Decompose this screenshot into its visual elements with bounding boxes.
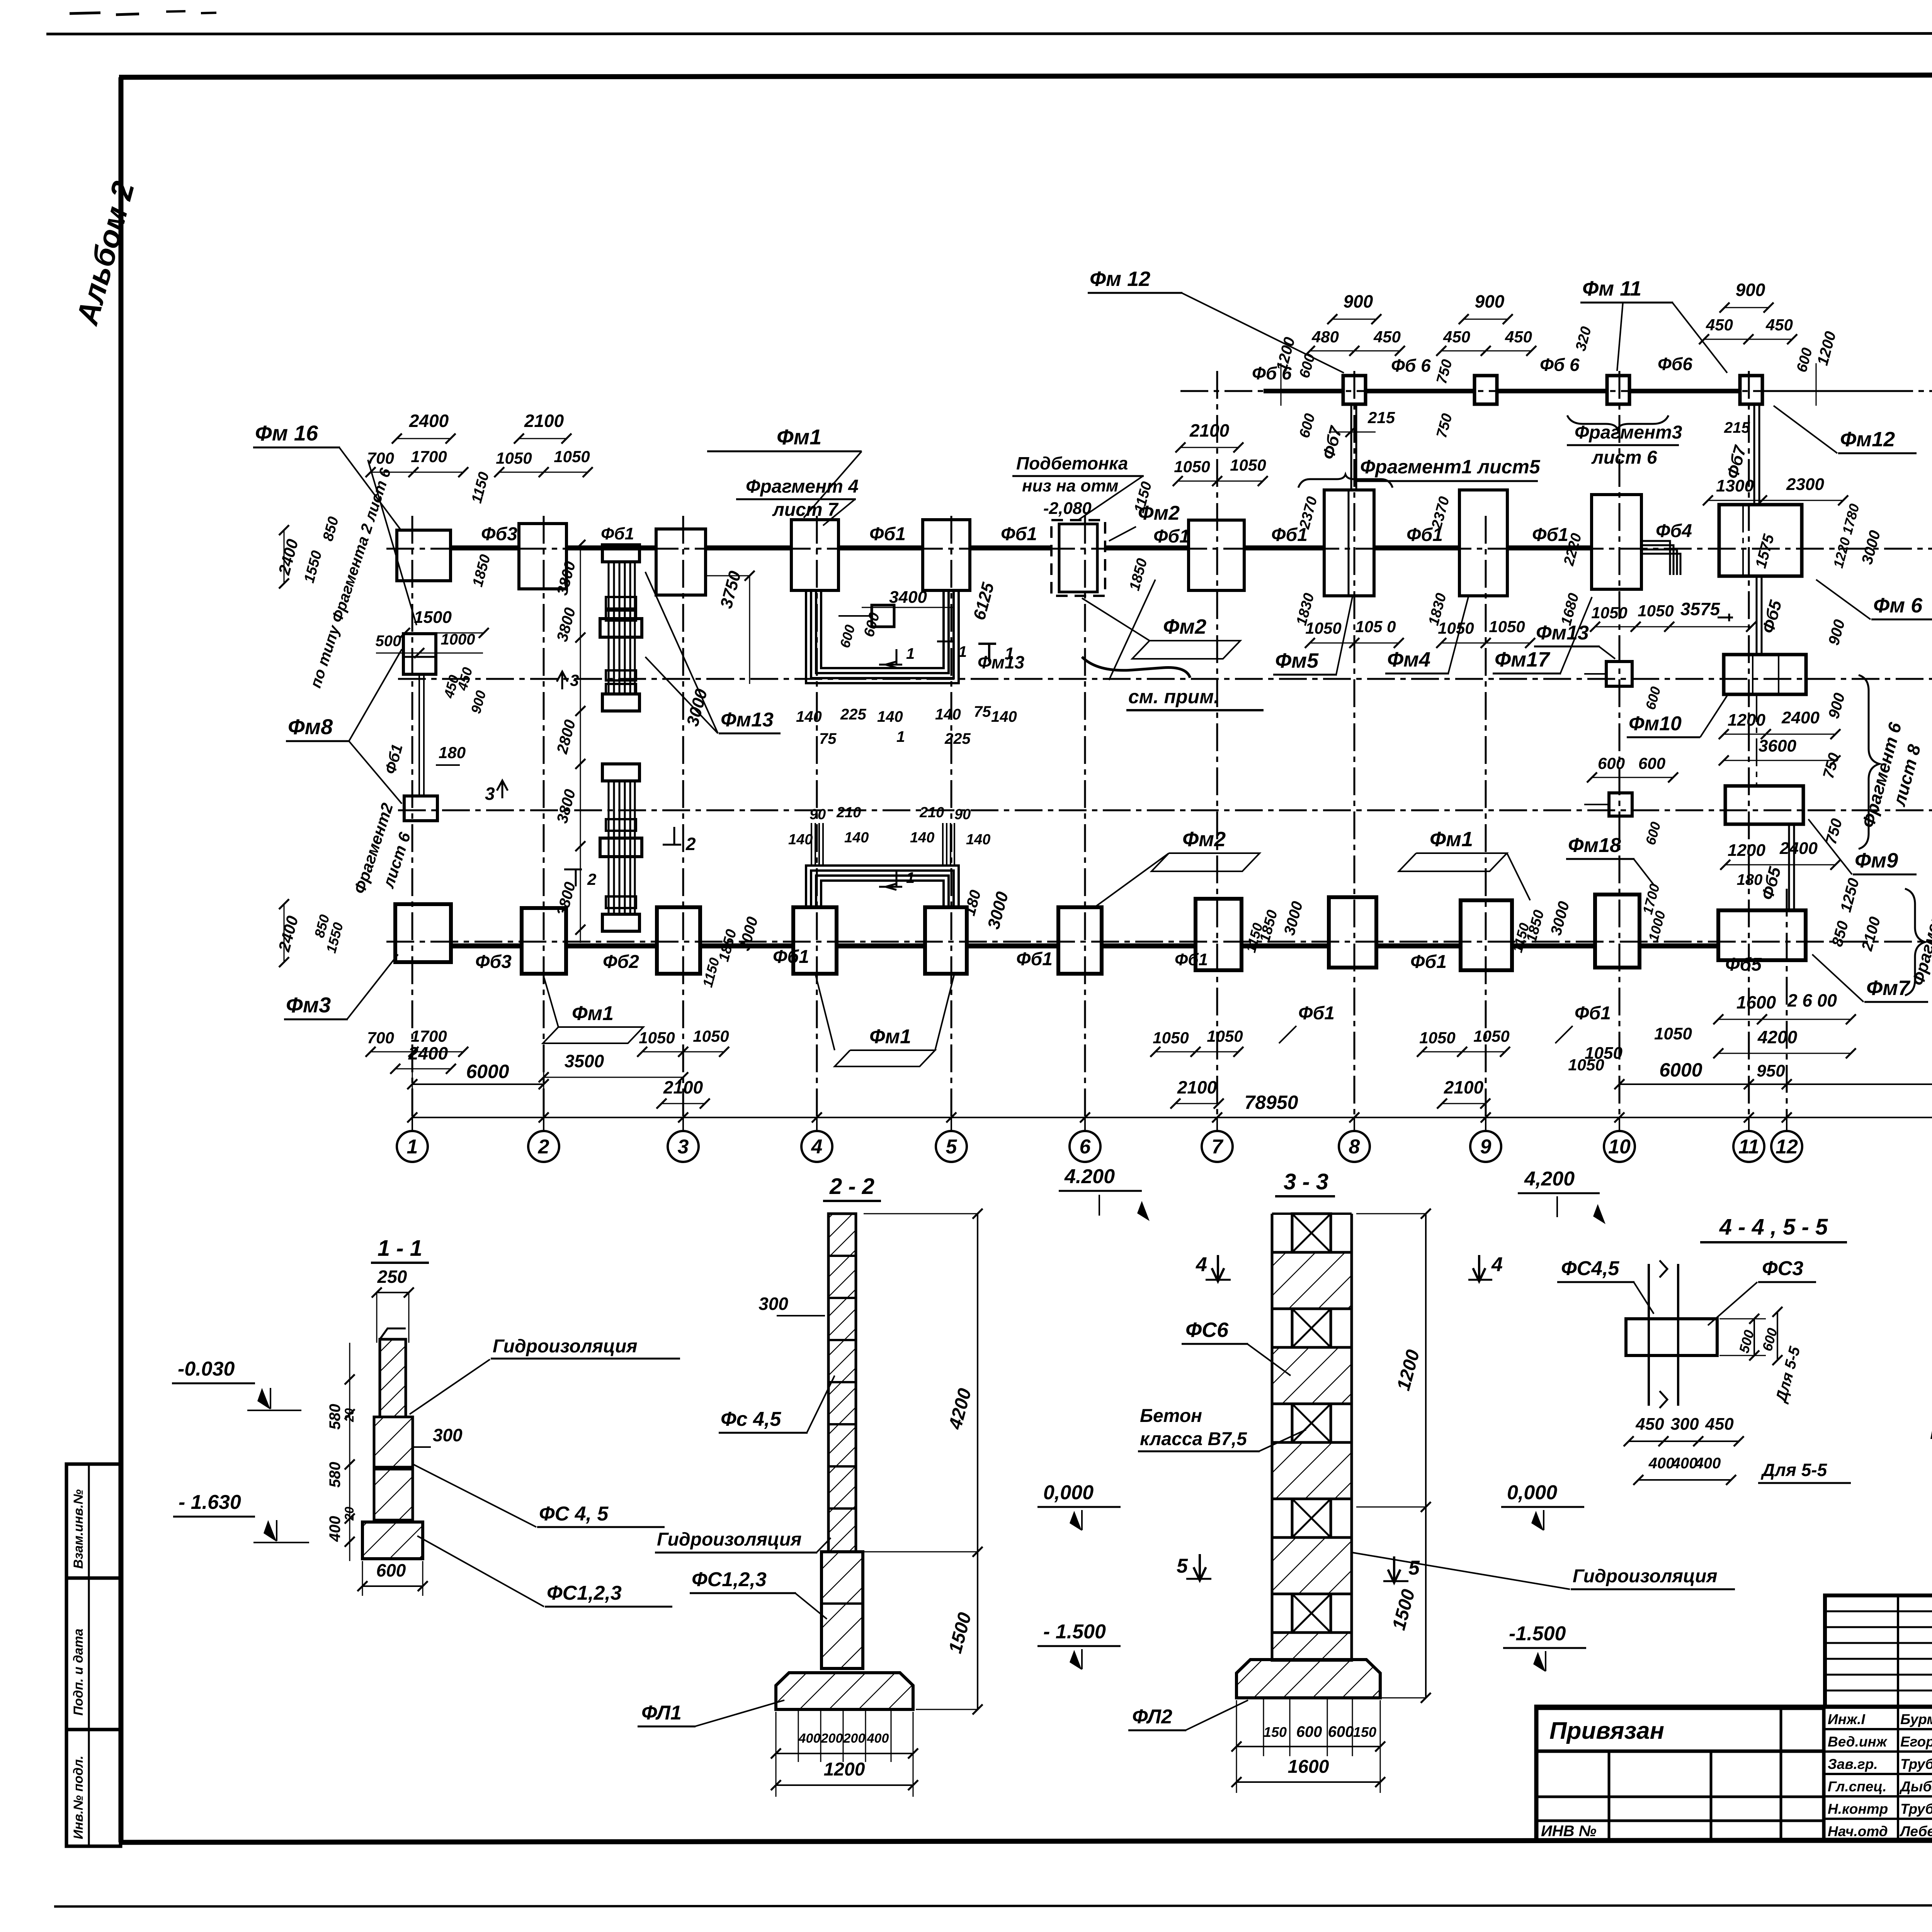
foundation col7 bottom bbox=[1196, 899, 1242, 970]
svg-text:Инж.I: Инж.I bbox=[1828, 1711, 1865, 1727]
fragment 5 list 7 brace bbox=[1905, 889, 1925, 995]
svg-text:1050: 1050 bbox=[1153, 1029, 1189, 1047]
axis circle 5 bbox=[936, 1131, 967, 1162]
vertical beam FB7 col8 bbox=[1350, 406, 1352, 490]
svg-text:450: 450 bbox=[1443, 328, 1470, 346]
beam FB5 between col10-11 A bbox=[1639, 944, 1718, 949]
svg-text:2100: 2100 bbox=[1177, 1077, 1217, 1097]
svg-text:Фб5: Фб5 bbox=[1725, 954, 1762, 975]
svg-text:4: 4 bbox=[811, 1136, 823, 1158]
squares Fm13 right bbox=[1606, 662, 1632, 686]
section 3-3 column bbox=[1292, 1214, 1331, 1252]
beam FB1 between col5-6 G bbox=[970, 546, 1051, 551]
svg-text:140: 140 bbox=[788, 832, 813, 848]
section 4-4 vertical wall lines bbox=[1648, 1264, 1650, 1406]
svg-text:- 1.500: - 1.500 bbox=[1043, 1621, 1106, 1643]
svg-text:Фб4: Фб4 bbox=[1656, 521, 1692, 541]
beam FB1 between col7-8 A bbox=[1242, 944, 1329, 949]
svg-text:Фм1: Фм1 bbox=[777, 425, 821, 449]
ladder element Fm13 upper col3 bbox=[602, 545, 639, 562]
svg-text:300: 300 bbox=[1670, 1415, 1699, 1434]
beam FB1 between col8-9 G bbox=[1374, 546, 1459, 551]
vertical beam FB7 col11 bbox=[1753, 406, 1755, 505]
beam FB1 between col7-8 G bbox=[1244, 546, 1324, 551]
svg-text:140: 140 bbox=[910, 830, 934, 846]
foundation col7 top bbox=[1189, 520, 1244, 590]
beam FB1 between col2-3 G bbox=[566, 546, 656, 551]
svg-text:215: 215 bbox=[1724, 419, 1750, 436]
svg-text:Для 5-5: Для 5-5 bbox=[1760, 1460, 1828, 1480]
section 2-2 dim 1200 bbox=[776, 1712, 777, 1797]
svg-text:Фм8: Фм8 bbox=[288, 714, 333, 739]
svg-text:Фб6: Фб6 bbox=[1658, 354, 1692, 374]
section 1-1 left dims 580 20 580 20 400 bbox=[349, 1343, 350, 1561]
axis circle 11 bbox=[1733, 1131, 1764, 1162]
svg-text:Фм12: Фм12 bbox=[1840, 428, 1895, 451]
beam FB1 between col4-5 A bbox=[837, 944, 925, 949]
bottom total dim line 78950 bbox=[412, 1117, 1932, 1118]
svg-text:1700: 1700 bbox=[411, 1027, 447, 1045]
svg-text:150: 150 bbox=[1353, 1724, 1376, 1740]
svg-text:Фрагмент1 лист5: Фрагмент1 лист5 bbox=[1360, 456, 1541, 478]
svg-text:Фб1: Фб1 bbox=[1016, 949, 1053, 969]
pit lower bracket bbox=[806, 866, 959, 908]
svg-text:105 0: 105 0 bbox=[1355, 617, 1396, 636]
svg-text:Фм4: Фм4 bbox=[1387, 648, 1430, 671]
foundation Fm1 col9 bottom bbox=[1461, 900, 1512, 970]
Fm8 lower small block bbox=[404, 796, 437, 821]
svg-text:2100: 2100 bbox=[663, 1077, 703, 1097]
svg-text:900: 900 bbox=[1736, 280, 1765, 300]
svg-text:200: 200 bbox=[843, 1731, 866, 1746]
beam FB1 between col9-10 A bbox=[1512, 944, 1595, 949]
svg-text:Подп. и дата: Подп. и дата bbox=[71, 1629, 86, 1716]
beam FB1 between col5-6 A bbox=[967, 944, 1058, 949]
axis line B bbox=[398, 810, 1932, 811]
svg-text:Фм1: Фм1 bbox=[572, 1002, 614, 1025]
scan artifacts top-left bbox=[70, 13, 100, 14]
svg-text:2 - 2: 2 - 2 bbox=[829, 1174, 874, 1199]
svg-text:900: 900 bbox=[1475, 291, 1505, 311]
pit loop Fm13 upper bbox=[806, 590, 959, 683]
foundation Fm16 col1 bbox=[397, 530, 451, 581]
foundation Fm1 col4 bbox=[791, 520, 838, 590]
svg-text:1200: 1200 bbox=[1728, 841, 1765, 860]
svg-text:1050: 1050 bbox=[1489, 617, 1525, 636]
section mark T1 bbox=[978, 644, 996, 662]
square col9 row E bbox=[1475, 376, 1497, 404]
svg-text:Подбетонка: Подбетонка bbox=[1016, 453, 1128, 473]
svg-text:450: 450 bbox=[1373, 328, 1401, 346]
svg-text:1050: 1050 bbox=[1174, 457, 1210, 476]
svg-text:2: 2 bbox=[587, 870, 596, 888]
svg-text:1050: 1050 bbox=[1230, 456, 1266, 474]
foundation col8 bottom bbox=[1329, 897, 1376, 968]
svg-text:под фундамент камеры тепловой: под фундамент камеры тепловой обработки bbox=[1930, 1420, 1932, 1444]
svg-text:Бурмистрова: Бурмистрова bbox=[1900, 1711, 1932, 1727]
svg-text:Фб1: Фб1 bbox=[601, 524, 634, 543]
svg-text:150: 150 bbox=[1264, 1724, 1287, 1740]
scan top edge line bbox=[46, 33, 1932, 34]
svg-text:90: 90 bbox=[810, 806, 826, 823]
svg-text:4.200: 4.200 bbox=[1064, 1165, 1115, 1188]
svg-text:3: 3 bbox=[485, 784, 495, 804]
svg-text:600: 600 bbox=[376, 1560, 406, 1580]
svg-text:400: 400 bbox=[798, 1731, 821, 1746]
beam FB1 between col3-4 A bbox=[700, 944, 793, 949]
svg-text:140: 140 bbox=[877, 708, 903, 725]
svg-text:450: 450 bbox=[1705, 1415, 1734, 1434]
svg-text:600: 600 bbox=[1638, 754, 1665, 772]
svg-text:Вед.инж: Вед.инж bbox=[1828, 1734, 1888, 1750]
section mark 1-1 inside pit bbox=[879, 649, 902, 668]
foundation Fm6 col11 big bbox=[1719, 505, 1802, 576]
svg-text:Фм 11: Фм 11 bbox=[1582, 277, 1641, 300]
svg-text:Гл.спец.: Гл.спец. bbox=[1828, 1779, 1887, 1794]
beam FB1 between col6-7 G bbox=[1105, 546, 1189, 551]
svg-text:1050: 1050 bbox=[1591, 604, 1627, 622]
axis line E bbox=[1180, 390, 1932, 392]
svg-text:300: 300 bbox=[433, 1425, 463, 1445]
svg-text:ФС3: ФС3 bbox=[1762, 1257, 1803, 1280]
svg-text:2: 2 bbox=[685, 834, 696, 854]
svg-text:класса В7,5: класса В7,5 bbox=[1140, 1429, 1247, 1449]
svg-text:лист 7: лист 7 bbox=[772, 500, 839, 520]
section 3-3 footing FL2 bbox=[1236, 1660, 1380, 1698]
svg-text:1050: 1050 bbox=[1207, 1027, 1243, 1045]
column axis lines bbox=[412, 516, 413, 1117]
pit inner square 600x600 bbox=[872, 605, 894, 627]
foundation col2 top bbox=[519, 524, 566, 589]
svg-text:3: 3 bbox=[678, 1136, 689, 1158]
foundation Fm3 col1 bbox=[395, 904, 451, 962]
svg-text:низ на отм: низ на отм bbox=[1022, 476, 1118, 495]
svg-text:Фм3: Фм3 bbox=[286, 993, 331, 1017]
bottom dim 6000 cols 1-2 bbox=[412, 1083, 544, 1085]
svg-text:ФЛ2: ФЛ2 bbox=[1132, 1706, 1172, 1728]
svg-text:Фм7: Фм7 bbox=[1866, 976, 1911, 1000]
svg-text:Нач.отд: Нач.отд bbox=[1828, 1823, 1888, 1839]
svg-text:Привязан: Привязан bbox=[1549, 1718, 1664, 1744]
beam FB6 segments row E bbox=[1264, 389, 1343, 393]
foundation Fm7 col11 bbox=[1718, 910, 1806, 960]
svg-text:Фм17: Фм17 bbox=[1495, 648, 1551, 671]
svg-text:1050: 1050 bbox=[1568, 1056, 1604, 1074]
ladder lower extra rungs bbox=[606, 819, 636, 831]
svg-text:Фм1: Фм1 bbox=[1430, 828, 1473, 851]
svg-text:600: 600 bbox=[1598, 754, 1625, 772]
svg-text:500: 500 bbox=[376, 633, 401, 650]
svg-text:ФЛ1: ФЛ1 bbox=[641, 1702, 682, 1724]
svg-text:180: 180 bbox=[1737, 871, 1763, 888]
foundation Fm17 col10 bbox=[1592, 495, 1641, 589]
signature rows bbox=[1825, 1728, 1932, 1730]
svg-text:1: 1 bbox=[896, 728, 905, 745]
svg-text:Гидроизоляция: Гидроизоляция bbox=[657, 1529, 801, 1550]
axis circle 12 bbox=[1771, 1131, 1802, 1162]
svg-text:3400: 3400 bbox=[889, 588, 927, 607]
svg-text:- 1.630: - 1.630 bbox=[179, 1491, 241, 1514]
svg-text:Фм2: Фм2 bbox=[1182, 828, 1226, 851]
svg-text:Фс 4,5: Фс 4,5 bbox=[721, 1408, 781, 1430]
svg-text:4200: 4200 bbox=[1757, 1027, 1798, 1047]
svg-text:2100: 2100 bbox=[1444, 1077, 1484, 1097]
section 3-3 bottom dims bbox=[1263, 1698, 1264, 1756]
svg-text:Фб1: Фб1 bbox=[1175, 950, 1208, 969]
svg-text:Фб1: Фб1 bbox=[1298, 1003, 1335, 1024]
svg-text:9: 9 bbox=[1480, 1136, 1492, 1158]
svg-text:20: 20 bbox=[342, 1408, 356, 1422]
axis circle 4 bbox=[801, 1131, 832, 1162]
svg-text:1500: 1500 bbox=[414, 608, 452, 627]
svg-text:Фб1: Фб1 bbox=[869, 524, 906, 544]
svg-text:Трубникова: Трубникова bbox=[1900, 1756, 1932, 1772]
svg-text:2 6 00: 2 6 00 bbox=[1787, 990, 1837, 1010]
svg-text:8: 8 bbox=[1349, 1136, 1360, 1158]
svg-text:6000: 6000 bbox=[1659, 1059, 1702, 1081]
svg-text:Фб1: Фб1 bbox=[773, 947, 809, 967]
left stamp boxes bbox=[66, 1464, 121, 1846]
svg-text:450: 450 bbox=[1505, 328, 1532, 346]
foundation Fm1 col4 bottom bbox=[793, 907, 837, 974]
beam FB1 between col6-7 A bbox=[1102, 944, 1196, 949]
svg-text:Фб 6: Фб 6 bbox=[1540, 355, 1580, 375]
foundation col3 bottom bbox=[657, 907, 700, 974]
svg-text:3500: 3500 bbox=[565, 1051, 604, 1071]
svg-text:1000: 1000 bbox=[441, 631, 475, 648]
svg-text:лист 6: лист 6 bbox=[1591, 447, 1657, 468]
svg-text:3575: 3575 bbox=[1680, 599, 1721, 619]
svg-text:Фб1: Фб1 bbox=[1532, 525, 1568, 545]
axis line V bbox=[398, 678, 1932, 680]
svg-text:400: 400 bbox=[1695, 1455, 1721, 1472]
svg-text:1050: 1050 bbox=[693, 1027, 729, 1045]
foundation Fm8 block bbox=[403, 634, 436, 674]
svg-text:140: 140 bbox=[796, 708, 822, 725]
section 4-4 right dims 500 600 bbox=[1719, 1318, 1766, 1320]
svg-text:ФС1,2,3: ФС1,2,3 bbox=[692, 1568, 767, 1591]
vertical beam FB5 above Fm10 bbox=[1756, 576, 1758, 655]
svg-text:225: 225 bbox=[944, 730, 971, 747]
foundation Fm2 dashed col6 bbox=[1051, 520, 1105, 596]
svg-text:ИНВ №: ИНВ № bbox=[1541, 1823, 1597, 1840]
svg-text:ФС 4, 5: ФС 4, 5 bbox=[539, 1503, 609, 1525]
section 3-3 right dim line 1200 1500 bbox=[1356, 1213, 1426, 1214]
svg-text:Фб1: Фб1 bbox=[1410, 952, 1447, 972]
svg-text:140: 140 bbox=[935, 706, 961, 723]
svg-text:Фм18: Фм18 bbox=[1568, 834, 1621, 857]
svg-text:1: 1 bbox=[958, 643, 967, 660]
axis circle 3 bbox=[668, 1131, 699, 1162]
svg-text:400: 400 bbox=[1648, 1455, 1675, 1472]
svg-text:90: 90 bbox=[954, 806, 971, 823]
svg-text:Фм13: Фм13 bbox=[721, 709, 774, 731]
svg-text:140: 140 bbox=[991, 708, 1017, 725]
svg-text:300: 300 bbox=[759, 1294, 788, 1314]
svg-text:1050: 1050 bbox=[639, 1029, 675, 1047]
brace over col8 rect bbox=[1298, 474, 1393, 488]
beam FB3 between col1-2 G bbox=[451, 546, 519, 551]
svg-text:Фм1: Фм1 bbox=[869, 1026, 911, 1048]
svg-text:600: 600 bbox=[1328, 1723, 1354, 1740]
svg-text:Фм 16: Фм 16 bbox=[255, 421, 318, 445]
beam FB3 between col1-2 A bbox=[451, 944, 522, 949]
svg-text:Н.контр: Н.контр bbox=[1828, 1801, 1888, 1817]
svg-text:200: 200 bbox=[821, 1731, 843, 1746]
title block stamp grid bbox=[1825, 1595, 1932, 1707]
svg-text:1600: 1600 bbox=[1736, 992, 1776, 1012]
svg-text:Фб3: Фб3 bbox=[475, 952, 512, 972]
foundation Fm1 col5 bbox=[923, 520, 970, 590]
svg-text:400: 400 bbox=[327, 1516, 344, 1542]
section marks 3 and 2 bbox=[497, 781, 508, 798]
svg-text:Фм9: Фм9 bbox=[1855, 849, 1898, 872]
privyazan cell bbox=[1536, 1708, 1824, 1751]
left lower grid bbox=[1536, 1750, 1824, 1753]
svg-text:-0.030: -0.030 bbox=[178, 1358, 235, 1380]
pit lower stubs bbox=[811, 823, 812, 866]
svg-text:900: 900 bbox=[1344, 291, 1373, 311]
section 1-1 mid blocks FS45 bbox=[374, 1417, 413, 1467]
svg-text:Гидроизоляция: Гидроизоляция bbox=[493, 1336, 637, 1357]
svg-text:215: 215 bbox=[1367, 408, 1395, 427]
section 2-2 bottom dims 400 200 200 400 bbox=[798, 1709, 799, 1762]
section 3-3 dim 1600 bbox=[1236, 1700, 1237, 1793]
svg-text:Фм2: Фм2 bbox=[1163, 615, 1206, 638]
svg-text:Трубникова: Трубникова bbox=[1900, 1801, 1932, 1817]
svg-text:12: 12 bbox=[1776, 1136, 1798, 1158]
svg-text:1050: 1050 bbox=[1305, 619, 1341, 637]
vertical beam between Fm10 Fm9 bbox=[1756, 694, 1757, 786]
svg-text:2100: 2100 bbox=[524, 411, 564, 431]
svg-text:2: 2 bbox=[538, 1136, 549, 1158]
svg-text:2100: 2100 bbox=[1189, 420, 1230, 440]
svg-text:75: 75 bbox=[819, 730, 837, 747]
svg-text:Взам.инв.№: Взам.инв.№ bbox=[71, 1489, 86, 1569]
svg-text:ФС4,5: ФС4,5 bbox=[1561, 1257, 1620, 1280]
svg-text:Фб 6: Фб 6 bbox=[1391, 355, 1431, 376]
svg-text:см. прим.: см. прим. bbox=[1128, 686, 1219, 707]
svg-text:0,000: 0,000 bbox=[1043, 1481, 1094, 1504]
fragment 6 list 8 brace bbox=[1859, 675, 1879, 849]
svg-text:1600: 1600 bbox=[1288, 1757, 1329, 1777]
foundation Fm10 bbox=[1724, 655, 1806, 694]
section 1-1 base block bbox=[362, 1522, 423, 1559]
beam FB1 between col4-5 G bbox=[838, 546, 923, 551]
svg-text:Фм13: Фм13 bbox=[978, 652, 1025, 672]
section 2-2 right dim 4200 1500 bbox=[864, 1213, 978, 1214]
main title table outer bbox=[1536, 1707, 1932, 1841]
svg-text:1300: 1300 bbox=[1716, 476, 1754, 495]
svg-text:ФС6: ФС6 bbox=[1185, 1318, 1229, 1342]
svg-text:5: 5 bbox=[1408, 1557, 1420, 1579]
axis line G bbox=[386, 548, 1932, 550]
svg-text:4 - 4 , 5 - 5: 4 - 4 , 5 - 5 bbox=[1719, 1214, 1828, 1240]
svg-text:Фм 6: Фм 6 bbox=[1873, 594, 1923, 617]
svg-text:140: 140 bbox=[844, 830, 869, 846]
svg-text:Бетон: Бетон bbox=[1140, 1406, 1202, 1426]
beam FB2 between col2-3 A bbox=[566, 944, 657, 949]
svg-text:78950: 78950 bbox=[1244, 1092, 1298, 1113]
section 4-4 horizontal block FS3 bbox=[1626, 1319, 1717, 1355]
svg-text:Зав.гр.: Зав.гр. bbox=[1828, 1756, 1878, 1772]
ladder upper extra clamp bbox=[606, 597, 636, 609]
axis circle 2 bbox=[528, 1131, 559, 1162]
svg-text:2300: 2300 bbox=[1786, 475, 1824, 494]
svg-text:580: 580 bbox=[327, 1404, 344, 1430]
dim line 3800 chain left of ladder bbox=[580, 545, 581, 943]
svg-text:Лебедев: Лебедев bbox=[1899, 1823, 1932, 1839]
svg-text:11: 11 bbox=[1738, 1136, 1759, 1158]
section mark 1 lower pit bbox=[879, 871, 902, 890]
svg-text:225: 225 bbox=[840, 706, 866, 723]
svg-text:400: 400 bbox=[1672, 1455, 1698, 1472]
section 2-2 lower column FS123 bbox=[821, 1552, 863, 1668]
svg-text:Фб3: Фб3 bbox=[481, 524, 517, 544]
svg-text:3: 3 bbox=[570, 671, 579, 689]
svg-text:Фм 12: Фм 12 bbox=[1090, 267, 1150, 291]
svg-text:1050: 1050 bbox=[1419, 1029, 1455, 1047]
svg-text:Егоров: Егоров bbox=[1900, 1734, 1932, 1750]
square Fm12 col8 row E bbox=[1343, 376, 1366, 404]
svg-text:10: 10 bbox=[1608, 1136, 1631, 1158]
svg-text:6: 6 bbox=[1080, 1136, 1091, 1158]
svg-text:250: 250 bbox=[377, 1267, 407, 1287]
foundation Fm4 col9 bbox=[1459, 490, 1507, 596]
svg-text:1050: 1050 bbox=[554, 447, 590, 466]
section 2-2 footing FL1 bbox=[776, 1673, 913, 1709]
axis circle 8 bbox=[1339, 1131, 1370, 1162]
section 1-1 upper column bbox=[380, 1339, 406, 1417]
svg-text:4: 4 bbox=[1491, 1253, 1503, 1276]
svg-text:Фб1: Фб1 bbox=[1153, 526, 1190, 547]
svg-text:950: 950 bbox=[1757, 1061, 1785, 1080]
svg-text:ФС1,2,3: ФС1,2,3 bbox=[547, 1582, 622, 1604]
svg-text:450: 450 bbox=[1635, 1415, 1664, 1434]
svg-text:3600: 3600 bbox=[1759, 736, 1796, 755]
svg-text:4: 4 bbox=[1196, 1253, 1207, 1276]
svg-text:700: 700 bbox=[367, 1029, 394, 1047]
svg-text:20: 20 bbox=[342, 1507, 356, 1521]
svg-text:0,000: 0,000 bbox=[1507, 1481, 1557, 1504]
bottom dims 6000 950 18000 bbox=[1619, 1083, 1932, 1085]
svg-text:1050: 1050 bbox=[1473, 1027, 1509, 1045]
section 1-1 dim 600 bbox=[362, 1561, 363, 1596]
svg-text:1050: 1050 bbox=[1654, 1024, 1692, 1043]
svg-text:Фб2: Фб2 bbox=[603, 952, 639, 972]
svg-text:1700: 1700 bbox=[411, 447, 447, 466]
svg-text:5: 5 bbox=[946, 1136, 957, 1158]
beam FB1 between col3-4 G bbox=[706, 546, 791, 551]
svg-text:Дыба: Дыба bbox=[1899, 1779, 1932, 1794]
beam FB1 between col9-10 G bbox=[1507, 546, 1592, 551]
svg-text:7: 7 bbox=[1212, 1136, 1224, 1158]
svg-text:1050: 1050 bbox=[1638, 602, 1673, 620]
square Fm12 col11 row E bbox=[1740, 376, 1762, 404]
svg-text:1200: 1200 bbox=[1728, 711, 1765, 730]
foundation Fm9 bbox=[1725, 786, 1803, 824]
foundation Fm1 col2 bottom bbox=[522, 908, 566, 974]
vertical beam FB5 below Fm9 bbox=[1788, 824, 1790, 910]
svg-text:2400: 2400 bbox=[1779, 839, 1818, 858]
svg-text:450: 450 bbox=[1765, 316, 1793, 334]
svg-text:4,200: 4,200 bbox=[1524, 1168, 1575, 1190]
svg-text:700: 700 bbox=[367, 449, 394, 467]
svg-text:2400: 2400 bbox=[409, 411, 449, 431]
frame bottom border bbox=[121, 1839, 1932, 1842]
bottom axis circles 1-13 bbox=[412, 1117, 413, 1131]
svg-text:600: 600 bbox=[1296, 1723, 1322, 1740]
